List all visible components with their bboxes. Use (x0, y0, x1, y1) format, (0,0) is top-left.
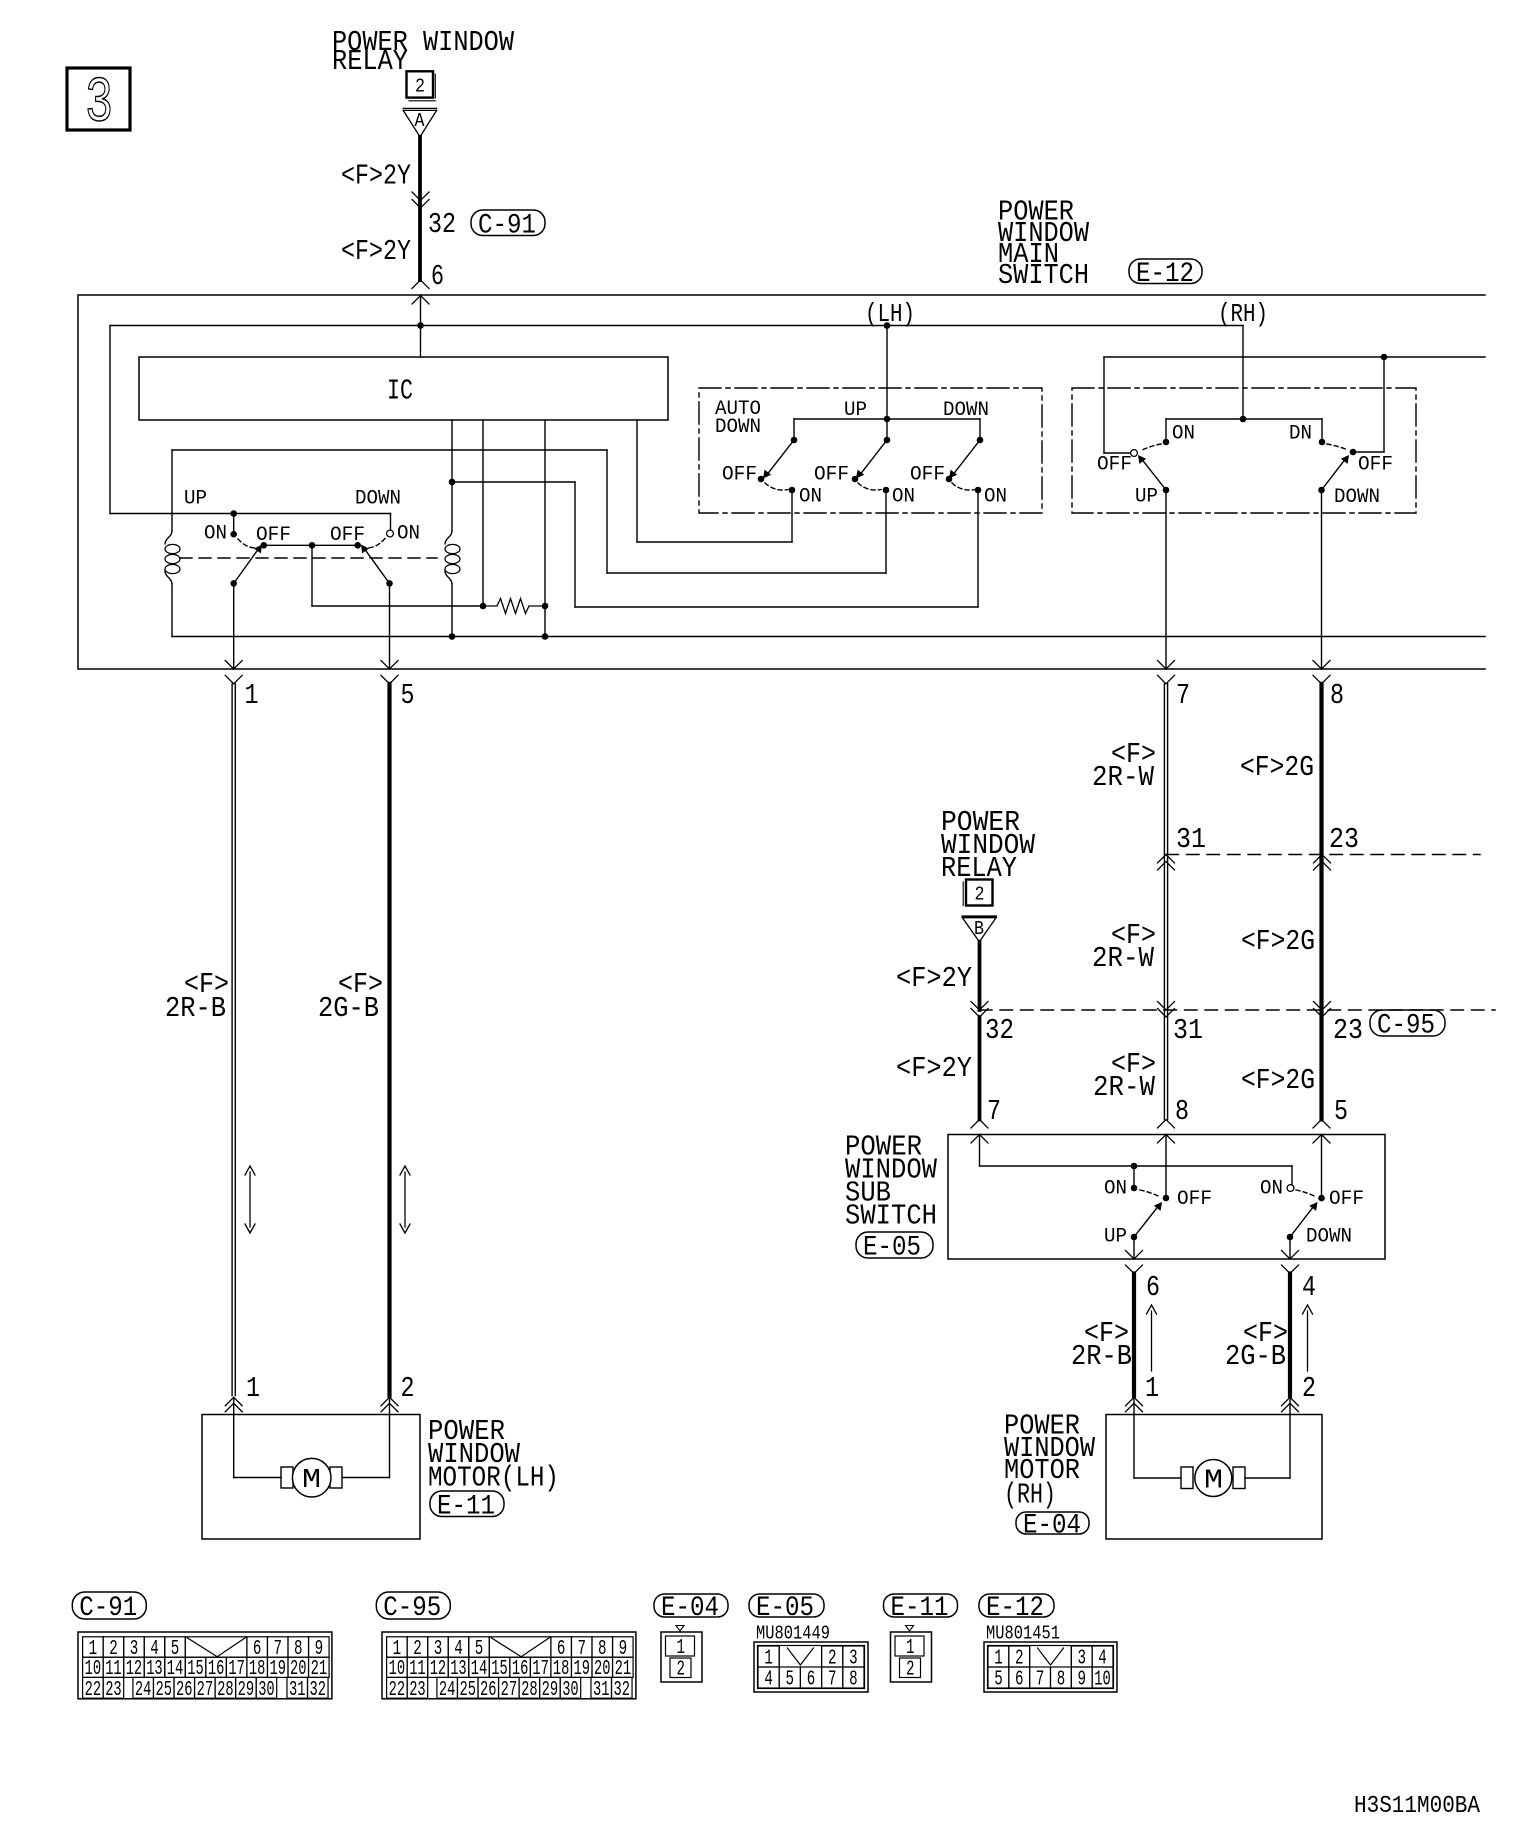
wire: to RH right OFF contact (1353, 451, 1384, 453)
main switch exit pin 5 (389, 583, 391, 669)
connector reference E-12 (1129, 259, 1202, 284)
svg-text:2R-B: 2R-B (1071, 1340, 1132, 1373)
common: up switch (884, 437, 891, 444)
svg-text:18: 18 (553, 1658, 570, 1681)
wire: motor RH to pin2 (1245, 1477, 1290, 1479)
LH switch assembly box (dash-dot) (699, 388, 1042, 513)
wire: DOWN ON net to coil node (452, 481, 575, 483)
pivot: sub up switch (1131, 1234, 1138, 1241)
wire: DOWN ON net (vert) (574, 482, 576, 607)
crossing chevrons 23 upper (1314, 855, 1331, 864)
wire: LH feed drop (886, 326, 888, 420)
svg-text:2: 2 (1015, 1648, 1024, 1671)
svg-text:23: 23 (1333, 1014, 1363, 1047)
junction: OFF common (309, 542, 316, 549)
svg-text:2R-W: 2R-W (1092, 942, 1155, 975)
svg-text:14: 14 (471, 1658, 488, 1681)
wire: OFF common down (311, 545, 313, 606)
relay coil L2 (DOWN) (451, 482, 453, 531)
svg-text:2: 2 (828, 1648, 837, 1671)
RH DOWN switch arm (1322, 460, 1346, 491)
sub switch exit pin 6 (1133, 1237, 1135, 1259)
contact: RH down DN (1319, 439, 1326, 446)
junction: rail/coil L2 (449, 633, 456, 640)
connector reference E-05 (856, 1232, 933, 1258)
main switch exit pin 7 (1165, 490, 1167, 669)
svg-text:OFF: OFF (1177, 1188, 1212, 1211)
LH switch arm x=887 (861, 440, 888, 474)
contact: auto OFF (758, 476, 765, 483)
svg-text:2R-W: 2R-W (1093, 1071, 1156, 1104)
connector reference C-91 (471, 210, 545, 236)
LH switch common bracket (794, 418, 980, 420)
svg-text:8: 8 (849, 1669, 858, 1692)
svg-text:ON: ON (799, 486, 822, 509)
svg-text:MU801449: MU801449 (756, 1623, 830, 1645)
contact: DOWN ON (open) (387, 530, 394, 537)
svg-text:16: 16 (512, 1658, 529, 1681)
svg-text:13: 13 (146, 1658, 163, 1681)
wire: OFF common (264, 544, 358, 546)
svg-text:SWITCH: SWITCH (845, 1200, 937, 1233)
svg-text:5: 5 (1334, 1095, 1348, 1128)
junction: pin6/bus (417, 322, 424, 329)
svg-text:9: 9 (1078, 1669, 1087, 1692)
svg-text:32: 32 (428, 208, 456, 241)
svg-text:10: 10 (389, 1658, 406, 1681)
contact: sub left OFF (1163, 1195, 1170, 1202)
LH switch arm x=794 (768, 440, 795, 474)
svg-text:MOTOR(LH): MOTOR(LH) (428, 1462, 559, 1495)
svg-text:DN: DN (1289, 423, 1312, 446)
wire: RH OFF bus y=357 (1104, 356, 1485, 358)
svg-text:27: 27 (197, 1679, 214, 1702)
page number box 3 (67, 68, 130, 130)
junction: resistor left (480, 603, 487, 610)
UP contact travel arc (238, 539, 258, 548)
wire (F)2R-B RH: thick (1132, 1274, 1136, 1396)
svg-text:2G-B: 2G-B (318, 992, 379, 1025)
wire: motor to pin2 (342, 1477, 390, 1479)
sub switch entry pin 8 (1158, 1120, 1175, 1129)
relay B triangle connector (963, 915, 996, 918)
pivot: sub down switch (1287, 1234, 1294, 1241)
relay B page-2 reference box (966, 880, 993, 906)
wire: OFF bus drop right (1383, 357, 1385, 452)
wire: resistor to rail (544, 606, 546, 637)
svg-text:RELAY: RELAY (332, 45, 408, 78)
svg-text:19: 19 (270, 1658, 287, 1681)
wire (F)2R-B LH: hollow double line (231, 684, 233, 1396)
svg-text:11: 11 (105, 1658, 122, 1681)
DOWN relay contact arm (365, 550, 390, 584)
wire: pin 6 into IC (420, 296, 422, 358)
wire: RH feed drop (1242, 326, 1244, 420)
svg-text:H3S11M00BA: H3S11M00BA (1354, 1793, 1480, 1820)
connector reference C-95 (1370, 1010, 1445, 1036)
connector pinout C-91 (72, 1592, 146, 1619)
contact: UP ON (230, 531, 237, 538)
svg-text:B: B (974, 918, 984, 940)
wire: bus drop left (109, 326, 111, 514)
svg-text:31: 31 (593, 1679, 610, 1702)
svg-text:20: 20 (290, 1658, 307, 1681)
svg-text:10: 10 (85, 1658, 102, 1681)
motor M (RH) (1181, 1467, 1193, 1489)
svg-text:6: 6 (1015, 1669, 1024, 1692)
svg-text:3: 3 (85, 69, 113, 141)
svg-text:2R-B: 2R-B (165, 992, 226, 1025)
wire: to RH left OFF contact (1104, 452, 1130, 454)
IC U1 box (139, 357, 668, 420)
svg-text:3: 3 (849, 1648, 858, 1671)
mechanical link (dashed) (180, 557, 437, 559)
svg-text:E-05: E-05 (863, 1233, 921, 1264)
contact: sub right ON (open) (1287, 1185, 1294, 1192)
wire: OFF bus drop left (1103, 357, 1105, 453)
svg-text:UP: UP (1104, 1226, 1127, 1249)
svg-text:DOWN: DOWN (715, 416, 761, 439)
svg-text:OFF: OFF (1097, 454, 1132, 477)
motor RH entry pin 2 (1282, 1397, 1299, 1406)
svg-text:19: 19 (574, 1658, 591, 1681)
contact: down OFF (946, 476, 953, 483)
svg-text:5: 5 (786, 1669, 795, 1692)
travel arc RH down (1327, 444, 1348, 450)
svg-text:14: 14 (167, 1658, 184, 1681)
svg-text:29: 29 (542, 1679, 559, 1702)
svg-text:DOWN: DOWN (1334, 486, 1380, 509)
sub switch DOWN arm (1290, 1207, 1314, 1238)
DOWN contact travel arc (365, 539, 385, 548)
svg-text:24: 24 (439, 1679, 456, 1702)
svg-text:OFF: OFF (722, 464, 757, 487)
wire (F)2G-B LH: thick (387, 684, 391, 1396)
wire: pin1 to motor (233, 1415, 235, 1478)
svg-text:22: 22 (85, 1679, 102, 1702)
svg-text:1: 1 (1145, 1372, 1159, 1405)
relay coil L1 (UP) (171, 450, 173, 531)
svg-text:<F>2Y: <F>2Y (896, 1052, 972, 1085)
svg-text:E-12: E-12 (1136, 259, 1194, 290)
svg-text:E-11: E-11 (437, 1491, 495, 1522)
connector C-95 dashed line (980, 1009, 1496, 1011)
connector pinout C-95 (376, 1592, 450, 1619)
svg-text:5: 5 (994, 1669, 1003, 1692)
svg-text:<F>2Y: <F>2Y (341, 235, 411, 268)
pivot: DOWN switch (386, 580, 393, 587)
svg-text:DOWN: DOWN (355, 488, 401, 511)
connector pinout E-05 (749, 1594, 824, 1617)
relay A page-2 reference box (407, 71, 434, 97)
svg-text:E-11: E-11 (891, 1593, 949, 1624)
wire: UP ON net (vert) (606, 450, 608, 573)
sub switch exit pin 4 (1289, 1237, 1291, 1259)
contact: DOWN OFF (354, 542, 361, 549)
svg-text:17: 17 (228, 1658, 245, 1681)
svg-text:5: 5 (401, 679, 415, 712)
svg-text:16: 16 (208, 1658, 225, 1681)
connector boundary dashed (upper) (1166, 854, 1480, 856)
wire: internal supply bus y=325 (110, 325, 1243, 327)
junction: bus/LH feed (884, 322, 891, 329)
svg-text:M: M (1204, 1467, 1223, 1497)
svg-text:1: 1 (677, 1637, 686, 1660)
contact: down ON (975, 487, 982, 494)
svg-text:31: 31 (1176, 823, 1206, 856)
svg-text:OFF: OFF (814, 464, 849, 487)
junction: LH bracket (884, 416, 891, 423)
crossing chevrons 31 upper (1158, 855, 1175, 864)
svg-text:4: 4 (764, 1669, 773, 1692)
svg-text:2: 2 (677, 1659, 686, 1682)
crossing chevrons 23 lower (1314, 1002, 1331, 1011)
svg-text:(RH): (RH) (1218, 299, 1268, 329)
svg-text:29: 29 (238, 1679, 255, 1702)
motor RH entry pin 1 (1126, 1397, 1143, 1406)
junction: RH OFF bus (1381, 354, 1388, 361)
svg-text:8: 8 (1057, 1669, 1066, 1692)
sub switch entry pin 7 (971, 1120, 988, 1129)
svg-text:32: 32 (310, 1679, 327, 1702)
wire: pin5 to sub right OFF (1321, 1135, 1323, 1196)
svg-text:E-12: E-12 (986, 1593, 1044, 1624)
svg-text:7: 7 (987, 1095, 1001, 1128)
wire: IC pin to resistor right (544, 420, 546, 606)
double-headed arrow (LH 2R-B) (249, 1172, 251, 1227)
svg-text:2G-B: 2G-B (1225, 1340, 1286, 1373)
svg-text:12: 12 (430, 1658, 447, 1681)
svg-text:28: 28 (217, 1679, 234, 1702)
svg-text:1: 1 (245, 679, 259, 712)
wire: UP ON net (horiz) (607, 572, 886, 574)
wire: up to DOWN ON contact (977, 490, 979, 607)
wire: relay B to sub switch pin 7, (F)2Y (978, 942, 982, 1010)
svg-text:23: 23 (1329, 823, 1359, 856)
svg-text:17: 17 (532, 1658, 549, 1681)
wire: to resistor (312, 605, 483, 607)
motor M (LH) (281, 1467, 293, 1488)
svg-text:6: 6 (431, 260, 444, 293)
junction: sub left ON feed (1131, 1163, 1138, 1170)
svg-text:26: 26 (480, 1679, 497, 1702)
contact: sub left ON (1131, 1185, 1138, 1192)
wire: IC pin to resistor left (482, 420, 484, 606)
svg-text:11: 11 (409, 1658, 426, 1681)
svg-text:6: 6 (807, 1669, 816, 1692)
wire: UP ON net to coil L1 (172, 449, 607, 451)
RH switch common bracket (1166, 418, 1322, 420)
wire: sub switch feed bus (980, 1165, 1293, 1167)
svg-text:E-05: E-05 (756, 1593, 814, 1624)
crossing chevrons 31 lower (1158, 1002, 1175, 1011)
connector C-91 crossing chevrons (412, 192, 429, 201)
svg-text:8: 8 (1175, 1095, 1189, 1128)
wire: pin7 feed (979, 1135, 981, 1167)
svg-text:30: 30 (258, 1679, 275, 1702)
svg-text:(LH): (LH) (865, 299, 915, 329)
wire: IC to AUTO DOWN ON (vert) (636, 420, 638, 542)
svg-text:4: 4 (1302, 1271, 1316, 1304)
travel arc sub right (1296, 1190, 1315, 1197)
motor LH entry pin 2 (381, 1397, 398, 1406)
svg-text:28: 28 (521, 1679, 538, 1702)
ground rail y=636 (172, 636, 1485, 638)
svg-text:15: 15 (491, 1658, 508, 1681)
svg-text:1: 1 (246, 1372, 260, 1405)
svg-text:10: 10 (1094, 1669, 1111, 1692)
svg-text:<F>2G: <F>2G (1240, 751, 1314, 784)
junction: coil L2 / sense (449, 479, 456, 486)
LH switch arm x=980 (954, 440, 981, 474)
RH UP switch arm (1142, 460, 1166, 491)
svg-text:(RH): (RH) (1004, 1479, 1056, 1512)
svg-text:20: 20 (594, 1658, 611, 1681)
svg-text:7: 7 (1036, 1669, 1045, 1692)
C-95 crossing chevrons pin 32 (971, 1002, 988, 1011)
main switch exit pin 1 (233, 583, 235, 669)
sub switch UP arm (1134, 1207, 1158, 1238)
wire: DOWN ON net (horiz) (575, 606, 978, 608)
svg-text:<F>2G: <F>2G (1241, 925, 1315, 958)
svg-text:UP: UP (184, 488, 207, 511)
connector pinout E-04 (654, 1594, 728, 1617)
svg-text:OFF: OFF (910, 464, 945, 487)
travel arc auto (765, 483, 788, 490)
junction: UP feed (230, 510, 237, 517)
svg-text:15: 15 (187, 1658, 204, 1681)
power window motor (RH) box (1106, 1415, 1322, 1540)
relay A triangle connector (403, 107, 436, 109)
svg-text:4: 4 (1098, 1648, 1107, 1671)
svg-text:OFF: OFF (1329, 1188, 1364, 1211)
svg-text:IC: IC (387, 375, 413, 408)
svg-text:23: 23 (105, 1679, 122, 1702)
svg-text:7: 7 (828, 1669, 837, 1692)
travel arc sub left (1140, 1190, 1159, 1197)
svg-text:MU801451: MU801451 (986, 1623, 1060, 1645)
up arrow (RH 2G-B) (1307, 1311, 1309, 1371)
svg-text:25: 25 (156, 1679, 173, 1702)
svg-text:<F>2Y: <F>2Y (896, 962, 972, 995)
connector reference E-04 (motor RH) (1016, 1512, 1089, 1534)
UP relay contact arm (234, 550, 258, 584)
svg-text:31: 31 (289, 1679, 306, 1702)
pivot: RH up switch (1163, 487, 1170, 494)
svg-text:25: 25 (460, 1679, 477, 1702)
wire: pin8 to sub left OFF (1165, 1135, 1167, 1196)
connector pinout E-12 (979, 1594, 1054, 1617)
svg-text:31: 31 (1173, 1014, 1203, 1047)
svg-text:ON: ON (1104, 1178, 1127, 1201)
common: auto-down switch (791, 437, 798, 444)
double-headed arrow (LH 2G-B) (404, 1172, 406, 1227)
sub switch entry pin 5 (1313, 1120, 1330, 1129)
svg-text:SWITCH: SWITCH (998, 259, 1089, 292)
contact: UP OFF (261, 542, 268, 549)
contact: up ON (883, 487, 890, 494)
junction: resistor right (542, 603, 549, 610)
wire (F)2G-B RH: thick (1288, 1274, 1292, 1396)
svg-text:DOWN: DOWN (1306, 1226, 1352, 1249)
resistor R1 (483, 599, 545, 614)
svg-text:13: 13 (450, 1658, 467, 1681)
svg-text:18: 18 (249, 1658, 266, 1681)
travel arc down (952, 483, 975, 490)
svg-text:ON: ON (892, 486, 915, 509)
wire: tick to UP ON contact (233, 514, 235, 532)
up arrow (RH 2R-B) (1151, 1311, 1153, 1371)
motor LH entry pin 1 (225, 1397, 242, 1406)
svg-text:C-91: C-91 (79, 1593, 137, 1624)
svg-text:32: 32 (985, 1014, 1014, 1047)
svg-text:7: 7 (1176, 679, 1190, 712)
svg-text:1: 1 (764, 1648, 773, 1671)
wire: relay A to main switch pin 6, (F)2Y (418, 137, 422, 280)
svg-text:2: 2 (975, 884, 985, 906)
pivot: RH down switch (1318, 487, 1325, 494)
wire: pin1 to motor RH (1133, 1415, 1135, 1479)
contact: RH right OFF (1350, 449, 1357, 456)
wire: up to AUTO DOWN ON contact (791, 490, 793, 542)
svg-text:21: 21 (311, 1658, 328, 1681)
svg-text:2R-W: 2R-W (1092, 761, 1155, 794)
svg-text:C-95: C-95 (383, 1593, 441, 1624)
svg-text:2: 2 (906, 1659, 915, 1682)
svg-text:26: 26 (176, 1679, 193, 1702)
svg-text:<F>2G: <F>2G (1241, 1064, 1315, 1097)
svg-text:27: 27 (501, 1679, 517, 1702)
main switch entry chevrons pin 6 (412, 280, 429, 289)
svg-text:1: 1 (994, 1648, 1003, 1671)
wire (F)2G: thick (1319, 684, 1323, 1120)
contact: auto ON (789, 487, 796, 494)
wire: IC pin to coil L2 (451, 420, 453, 482)
pivot: UP switch (230, 580, 237, 587)
travel arc RH up (1140, 444, 1161, 451)
contact: RH up ON (1163, 439, 1170, 446)
svg-text:M: M (302, 1466, 321, 1496)
wire: IC to AUTO DOWN ON (horiz) (637, 541, 792, 543)
wire: feed to UP/DOWN contacts (110, 513, 391, 515)
wire: drop to DOWN ON contact (390, 514, 392, 531)
svg-text:30: 30 (562, 1679, 579, 1702)
contact: RH left OFF (open) (1131, 450, 1138, 457)
wire (F)2R-W: hollow double line (1163, 684, 1165, 1120)
svg-text:ON: ON (397, 523, 420, 546)
junction: RH bracket (1240, 416, 1247, 423)
svg-text:24: 24 (135, 1679, 152, 1702)
junction: rail/resistor (542, 633, 549, 640)
svg-text:32: 32 (614, 1679, 631, 1702)
wire: up to UP ON contact (885, 490, 887, 573)
svg-text:3: 3 (1078, 1648, 1087, 1671)
contact: up OFF (852, 476, 859, 483)
RH switch assembly box (dash-dot) (1072, 388, 1416, 513)
svg-text:ON: ON (1260, 1178, 1283, 1201)
main switch exit pin 8 (1321, 490, 1323, 669)
svg-text:C-91: C-91 (478, 210, 536, 241)
svg-text:1: 1 (906, 1637, 915, 1660)
travel arc up (858, 483, 881, 490)
svg-text:OFF: OFF (1358, 454, 1393, 477)
svg-text:A: A (415, 110, 426, 132)
svg-text:ON: ON (204, 523, 227, 546)
svg-text:22: 22 (389, 1679, 406, 1702)
svg-text:<F>2Y: <F>2Y (341, 160, 411, 193)
svg-text:8: 8 (1330, 679, 1344, 712)
svg-text:UP: UP (1135, 486, 1158, 509)
